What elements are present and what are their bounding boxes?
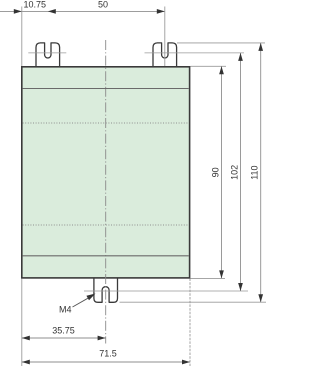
dimension 110 vertical line [260, 43, 262, 302]
svg-text:71.5: 71.5 [99, 349, 117, 359]
svg-text:35.75: 35.75 [52, 326, 75, 336]
inner line solid y=255.8 [23, 255, 189, 257]
ext line M4 center y=291 [84, 290, 248, 292]
dimension 102 vertical line [240, 53, 242, 291]
svg-text:90: 90 [210, 167, 220, 177]
top tab right (white fill) [153, 43, 177, 68]
left tab horizontal center line [28, 52, 66, 54]
top tab left (white fill) [36, 43, 60, 68]
right tab horizontal center line (extends right as 102 extension) [145, 52, 245, 54]
M4 leader arrowhead [86, 294, 95, 301]
svg-text:50: 50 [98, 0, 108, 9]
vertical part center line [105, 40, 107, 344]
inner line dotted y=123 [23, 122, 189, 124]
bottom ext line left x=21.8 [21, 279, 23, 366]
ext line bottom tab bottom y=301.5 [120, 301, 267, 303]
svg-text:10.75: 10.75 [24, 0, 47, 9]
arrow right-pointing at x=21.8 [14, 9, 22, 14]
body outline (green) [22, 67, 190, 278]
svg-text:M4: M4 [59, 305, 72, 315]
dimension 90 vertical line [221, 66, 223, 278]
svg-text:102: 102 [230, 165, 240, 180]
svg-text:110: 110 [249, 165, 259, 179]
right ext line from tab top y=42.9 [177, 42, 265, 44]
dimension 71.5 line [22, 361, 190, 363]
inner line dotted y=225 [23, 224, 189, 226]
right ext line from body top y=66.3 [191, 65, 227, 67]
bottom ext line right x=190 [189, 279, 191, 366]
arrow right-pointing at x=164.8 [157, 9, 165, 14]
top dimension line (10.75 / 50) [0, 10, 165, 12]
dimension 35.75 line [22, 337, 106, 339]
extension line right tab center (x=164.8) [164, 7, 166, 67]
M4 leader line [73, 297, 90, 307]
right ext line from body bottom y=278.4 [191, 277, 226, 279]
inner line solid y=88.5 [23, 88, 189, 90]
extension line left (x=21.8) [21, 7, 23, 67]
arrow left-pointing at x=47.8 [48, 9, 56, 14]
bottom tab (white fill) [94, 277, 118, 302]
